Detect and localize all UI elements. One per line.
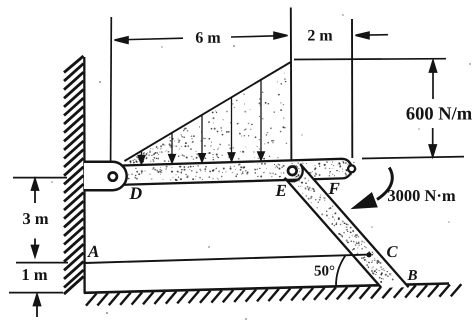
- text 600 N/m: [406, 107, 471, 119]
- moment arrowhead: [352, 193, 377, 209]
- pin at F: [348, 165, 355, 172]
- pin at E: [288, 167, 297, 176]
- extension line mid / triangle right side (x=291): [290, 8, 293, 163]
- text 6 m: [196, 32, 221, 43]
- text 3000 N.m: [388, 190, 455, 201]
- extension line left (x=111): [110, 17, 113, 161]
- load arrow at x=172: [168, 133, 175, 164]
- 1 m dimension: [9, 293, 63, 317]
- text 2 m: [308, 30, 332, 41]
- line A to member with end dot: [85, 255, 369, 263]
- moment curved arrow: [377, 168, 392, 200]
- diagonal member EB: [285, 164, 409, 288]
- label F: [328, 183, 339, 194]
- triangle distributed load outline: [125, 62, 291, 161]
- label B: [407, 270, 417, 280]
- load arrow at x=261: [257, 80, 264, 161]
- text 3 m: [23, 213, 48, 224]
- pin hole D: [109, 173, 117, 181]
- wall edge line: [83, 57, 86, 294]
- text 1 m: [23, 269, 48, 280]
- 3 m dimension: [13, 178, 68, 263]
- load arrow at x=142: [138, 151, 145, 165]
- label E: [275, 185, 286, 196]
- 600 N/m dimension: [429, 61, 436, 157]
- load arrow at x=202: [198, 115, 205, 163]
- 50 degree angle arc: [336, 255, 346, 286]
- extension line x=352: [351, 19, 353, 158]
- ground hatching: [86, 284, 461, 306]
- pin bracket at D: [84, 162, 127, 190]
- dimension line 6 m with arrows: [115, 32, 288, 43]
- beam DF (stippled bar): [122, 159, 352, 185]
- stipple dots: [128, 73, 394, 283]
- arrow right of 2 m: [356, 32, 389, 39]
- node dot on member: [366, 252, 371, 257]
- beam-level reference line right: [362, 157, 464, 159]
- load arrow at x=232: [228, 97, 235, 161]
- wall hatching: [64, 56, 84, 294]
- top reference line (apex level): [294, 58, 446, 61]
- label D: [129, 188, 141, 199]
- text 50deg: [315, 266, 335, 276]
- ground line: [84, 284, 449, 293]
- label A: [87, 246, 99, 257]
- label C: [387, 246, 398, 257]
